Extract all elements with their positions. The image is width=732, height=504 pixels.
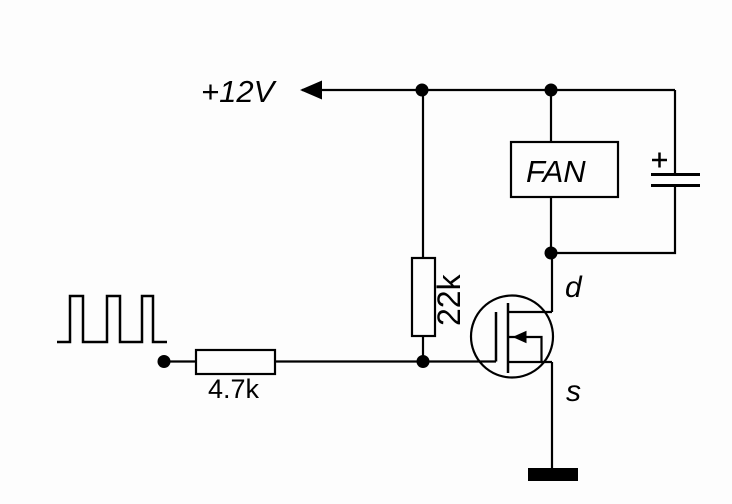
svg-text:d: d <box>565 271 583 304</box>
svg-text:+12V: +12V <box>201 74 278 109</box>
svg-text:22k: 22k <box>431 273 467 326</box>
svg-text:s: s <box>566 375 581 408</box>
svg-text:4.7k: 4.7k <box>208 374 260 404</box>
svg-text:FAN: FAN <box>526 154 586 189</box>
